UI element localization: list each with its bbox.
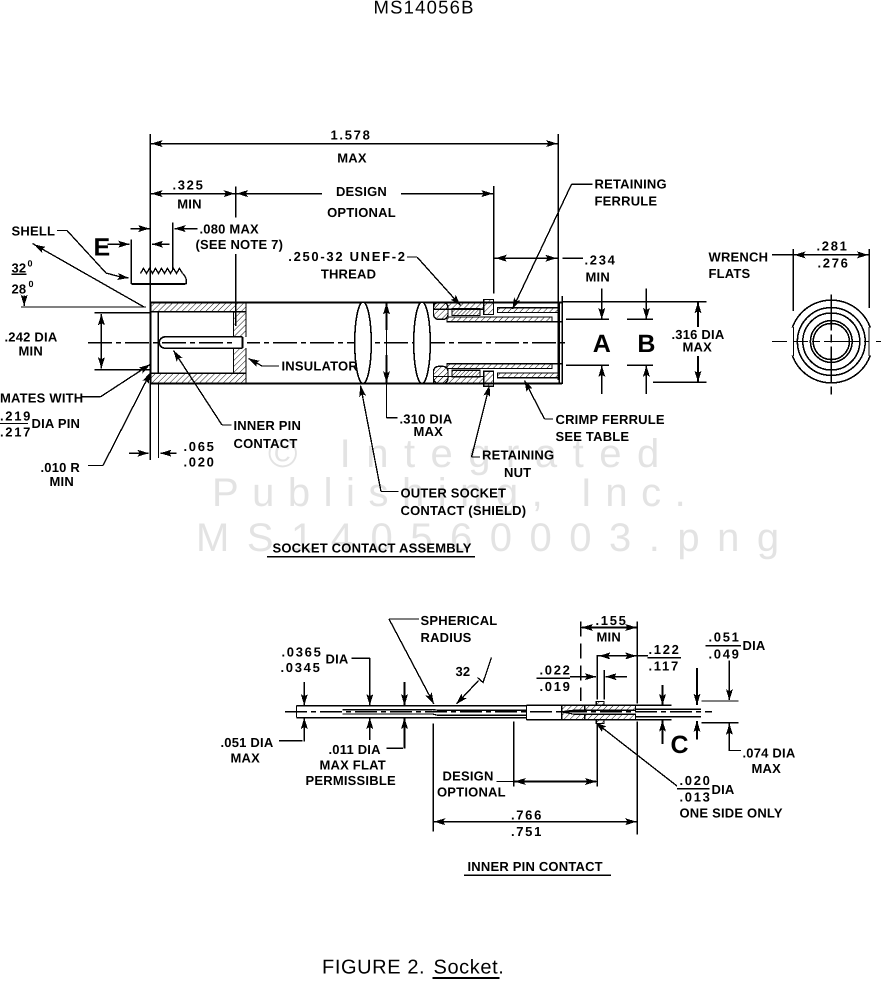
- svg-text:E: E: [94, 234, 111, 262]
- svg-text:.751: .751: [511, 824, 543, 839]
- svg-text:.013: .013: [680, 790, 712, 805]
- svg-text:.325: .325: [172, 178, 204, 193]
- retaining nut collar hatch: [434, 302, 449, 319]
- svg-text:MAX: MAX: [231, 751, 261, 766]
- svg-text:MAX: MAX: [683, 340, 713, 355]
- svg-text:THREAD: THREAD: [321, 267, 376, 282]
- svg-text:OUTER SOCKET: OUTER SOCKET: [401, 486, 507, 501]
- svg-text:Socket.: Socket.: [434, 957, 505, 979]
- crimp barrel top band hatch: [585, 705, 636, 710]
- svg-text:.122: .122: [649, 642, 681, 657]
- svg-text:FERRULE: FERRULE: [595, 194, 658, 209]
- shield wall band hatch: [447, 317, 552, 322]
- shell bottom wall hatch: [150, 373, 246, 383]
- dimension .155 MIN: [581, 627, 638, 629]
- retaining nut band hatch: [434, 302, 484, 309]
- svg-text:RETAINING: RETAINING: [482, 448, 554, 463]
- svg-text:MATES WITH: MATES WITH: [0, 391, 83, 406]
- dimension C: [662, 685, 664, 705]
- svg-text:DIA PIN: DIA PIN: [32, 416, 81, 431]
- svg-text:CONTACT (SHIELD): CONTACT (SHIELD): [401, 503, 527, 518]
- dimension .325 MIN: [235, 187, 237, 218]
- svg-text:A: A: [593, 330, 611, 358]
- svg-text:MAX: MAX: [414, 424, 444, 439]
- svg-text:.766: .766: [511, 808, 543, 823]
- dimension .242 DIA MIN: [95, 312, 151, 314]
- svg-text:MAX: MAX: [337, 151, 367, 166]
- tube break lens 2: [414, 302, 431, 383]
- svg-text:.250-32 UNEF-2: .250-32 UNEF-2: [288, 249, 406, 264]
- svg-text:DIA: DIA: [326, 652, 349, 667]
- svg-text:.0345: .0345: [281, 660, 322, 675]
- svg-text:MAX: MAX: [752, 761, 782, 776]
- svg-text:RETAINING: RETAINING: [595, 177, 667, 192]
- svg-text:0: 0: [29, 279, 34, 289]
- svg-text:.010 R: .010 R: [41, 460, 81, 475]
- chamfer angle 32 28 deg: [33, 244, 145, 308]
- svg-text:CRIMP FERRULE: CRIMP FERRULE: [556, 412, 665, 427]
- dimension 1.578 MAX: [149, 134, 151, 302]
- pin flat lines: [343, 709, 433, 711]
- thread band hatch: [452, 309, 480, 316]
- svg-text:.0365: .0365: [282, 645, 323, 660]
- svg-text:.217: .217: [0, 425, 32, 440]
- svg-text:NUT: NUT: [504, 465, 531, 480]
- svg-text:.051 DIA: .051 DIA: [221, 735, 274, 750]
- svg-text:FLATS: FLATS: [709, 266, 751, 281]
- dimension .122 .117: [598, 655, 648, 657]
- shell bore inner face: [157, 312, 159, 373]
- svg-text:ONE SIDE ONLY: ONE SIDE ONLY: [680, 806, 783, 821]
- svg-text:MIN: MIN: [177, 197, 201, 212]
- svg-text:INSULATOR: INSULATOR: [282, 359, 359, 374]
- end view crosshair: [830, 295, 832, 395]
- wire lines: [636, 704, 672, 706]
- svg-text:DIA: DIA: [712, 782, 735, 797]
- svg-text:DESIGN: DESIGN: [443, 769, 494, 784]
- svg-text:.074 DIA: .074 DIA: [743, 746, 796, 761]
- svg-text:.234: .234: [585, 253, 617, 268]
- svg-text:FIGURE 2.: FIGURE 2.: [322, 957, 425, 979]
- svg-text:B: B: [637, 330, 655, 358]
- outer socket contact tube outline: [150, 301, 562, 303]
- svg-text:SHELL: SHELL: [12, 224, 56, 239]
- svg-text:.117: .117: [649, 659, 680, 674]
- svg-text:MIN: MIN: [19, 344, 43, 359]
- dimension .766 .751: [433, 821, 637, 823]
- insulator hatch column: [234, 312, 247, 373]
- svg-text:.020: .020: [184, 455, 216, 470]
- svg-text:.065: .065: [184, 439, 216, 454]
- wrench flat edges: [792, 327, 794, 356]
- pin centerline: [285, 711, 712, 713]
- dimension .281 .276: [792, 249, 794, 311]
- dimension .065 .020: [149, 383, 151, 460]
- pin body outline: [297, 705, 527, 707]
- svg-text:RADIUS: RADIUS: [421, 630, 472, 645]
- svg-text:.219: .219: [0, 409, 32, 424]
- svg-text:28: 28: [12, 282, 27, 297]
- dimension .310 DIA MAX: [386, 303, 388, 418]
- svg-text:INNER PIN CONTACT: INNER PIN CONTACT: [468, 859, 603, 874]
- dimension .011 DIA MAX FLAT PERMISSIBLE: [404, 682, 406, 705]
- svg-text:.020: .020: [680, 773, 712, 788]
- crimp barrel hatch wedge top: [562, 705, 585, 712]
- svg-text:WRENCH: WRENCH: [709, 250, 769, 265]
- svg-text:SEE TABLE: SEE TABLE: [556, 429, 630, 444]
- dimension .074 arrows: [696, 668, 698, 705]
- end view horizontal centerline: [772, 341, 881, 343]
- svg-text:OPTIONAL: OPTIONAL: [437, 785, 506, 800]
- svg-text:SPHERICAL: SPHERICAL: [421, 613, 498, 628]
- svg-text:.281: .281: [817, 239, 849, 254]
- svg-text:.242 DIA: .242 DIA: [5, 330, 58, 345]
- svg-text:OPTIONAL: OPTIONAL: [327, 205, 396, 220]
- svg-text:CONTACT: CONTACT: [234, 436, 298, 451]
- svg-text:SOCKET CONTACT ASSEMBLY: SOCKET CONTACT ASSEMBLY: [273, 541, 472, 556]
- shell top wall hatch: [150, 302, 246, 311]
- svg-text:INNER PIN: INNER PIN: [234, 418, 302, 433]
- serration detail: [130, 240, 132, 285]
- svg-text:DIA: DIA: [743, 638, 766, 653]
- svg-text:MIN: MIN: [50, 474, 74, 489]
- svg-text:PERMISSIBLE: PERMISSIBLE: [306, 773, 396, 788]
- end view circles: [790, 300, 873, 383]
- svg-text:.049: .049: [709, 647, 741, 662]
- extension lines bottom drawing: [580, 622, 582, 702]
- centerline: [88, 342, 566, 344]
- dimension DESIGN OPTIONAL: [493, 186, 495, 294]
- svg-text:MIN: MIN: [597, 630, 621, 645]
- extension line right: [561, 296, 563, 384]
- svg-text:32: 32: [456, 664, 471, 679]
- svg-text:.080 MAX: .080 MAX: [200, 222, 260, 237]
- svg-text:.155: .155: [596, 613, 628, 628]
- retaining nut flange hatch: [484, 300, 494, 315]
- svg-text:MIN: MIN: [586, 270, 610, 285]
- dimension .051 DIA MAX left: [303, 682, 305, 705]
- svg-text:.276: .276: [818, 256, 850, 271]
- inner pin contact: [159, 337, 242, 348]
- svg-text:.019: .019: [540, 679, 572, 694]
- tube break lens 1: [355, 302, 372, 383]
- svg-text:MS14056B: MS14056B: [374, 0, 475, 18]
- svg-text:DESIGN: DESIGN: [336, 184, 387, 199]
- svg-text:.051: .051: [709, 630, 741, 645]
- svg-text:0: 0: [28, 259, 33, 269]
- svg-text:(SEE NOTE 7): (SEE NOTE 7): [196, 237, 284, 252]
- crimp barrel plain section: [527, 704, 562, 706]
- crimp barrel hatch wedge bottom: [562, 712, 585, 720]
- svg-text:MAX FLAT: MAX FLAT: [320, 758, 386, 773]
- svg-text:C: C: [671, 731, 689, 759]
- svg-text:1.578: 1.578: [330, 128, 371, 143]
- dimension .234 MIN: [495, 257, 558, 259]
- dimension .080 MAX SEE NOTE 7: [172, 223, 174, 270]
- svg-text:.022: .022: [540, 663, 572, 678]
- pin neck transition: [433, 709, 527, 712]
- dimension A B .316 DIA MAX: [562, 301, 706, 303]
- part end edge: [558, 302, 560, 383]
- retaining ferrule band hatch: [498, 308, 560, 313]
- inspection hole tabs: [596, 701, 604, 705]
- dimension .074 DIA MAX: [729, 747, 741, 750]
- crimp barrel bottom band hatch: [585, 714, 636, 720]
- svg-text:.011 DIA: .011 DIA: [329, 742, 382, 757]
- svg-text:32: 32: [12, 261, 27, 276]
